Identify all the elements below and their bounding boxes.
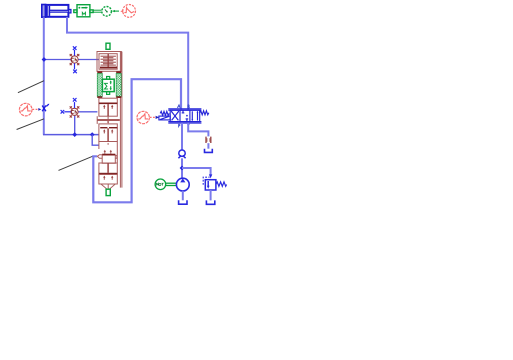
wire: valve T port to tank via orifice	[188, 123, 208, 136]
right spring	[200, 111, 209, 115]
spool section 1 (brown, metering stage)	[99, 98, 117, 116]
signal link arrow gauge to scope	[112, 10, 119, 12]
junction dot J2 (Ch2 drop on node row)	[72, 132, 77, 137]
Ch1 stubs and unconnected X ports	[73, 46, 77, 73]
wire: valve P port down to check valve	[181, 123, 183, 150]
cylinder C1 (double-acting hydraulic cylinder)	[42, 5, 71, 18]
wire: branch down into manifold pilot port	[92, 135, 99, 146]
relief valve RV1	[203, 177, 226, 190]
valve body cells	[170, 110, 200, 121]
left cell crossed arrows	[172, 112, 179, 121]
junction dot J1	[42, 57, 47, 62]
wire: check valve to pump	[181, 158, 183, 178]
interstage channel	[97, 116, 120, 124]
right cell straight arrows	[191, 111, 193, 120]
tank T1	[179, 200, 187, 204]
wire: Ch1 to manifold	[78, 59, 99, 61]
middle cell blocked ports	[182, 110, 184, 113]
junction dot J3	[90, 132, 95, 137]
wire: node row horizontal to manifold left port	[43, 134, 99, 136]
junction dot J4	[180, 166, 185, 171]
leader line L3	[59, 156, 94, 171]
signal generator SG1 (red circle with waveform)	[19, 103, 37, 116]
servo manifold top port (green)	[106, 43, 110, 49]
channel tap Ch1	[70, 54, 80, 65]
proportional 4/3 valve V1	[159, 109, 209, 123]
wire: cylinder rod-end line to valve port B	[67, 17, 188, 110]
Ch2 stubs and unconnected X ports	[61, 98, 77, 114]
gauge G1 (green dashed measuring instrument)	[102, 7, 112, 17]
spool section 5 (brown, outlet to port)	[99, 174, 117, 189]
signal generator SG2 (red circle with waveform, valve command)	[137, 111, 156, 123]
check valve CV1	[178, 150, 185, 158]
node X1 (tap junction on cap-end line with link arrow)	[42, 104, 49, 112]
spool section 2 (brown, pilot stage)	[99, 124, 117, 142]
spool section 3 (brown, feedback chamber)	[99, 142, 117, 163]
wire: supply branch to relief valve	[182, 168, 211, 176]
tank T3	[205, 149, 213, 153]
wire: cylinder cap-end line down the left bus	[43, 17, 45, 134]
pump circle	[176, 178, 189, 191]
wire: node row Ch1 to bus	[44, 59, 71, 61]
manifold outer return channels (right side, brown)	[120, 52, 122, 188]
channel tap Ch2	[70, 106, 80, 117]
spool section 4 (brown)	[99, 163, 117, 174]
heavy line: manifold outlet around to valve port A	[93, 79, 181, 202]
hatched feedback columns (green)	[97, 71, 102, 73]
summing block (green spool controller)	[102, 77, 114, 95]
valve rails (double lines)	[168, 108, 201, 110]
left proportional solenoid	[159, 116, 170, 120]
valve port labels	[177, 105, 190, 128]
mechanical link (double green line) sensor to gauge	[93, 10, 101, 12]
left spring	[160, 111, 169, 115]
wire: Ch2 to manifold	[78, 111, 97, 113]
oscilloscope SC1 (red dashed circle with response curve)	[120, 4, 135, 17]
wire: pump to tank	[182, 191, 184, 200]
servo manifold bottom port (green)	[106, 189, 110, 195]
orifice OR1 (brown)	[206, 137, 211, 143]
leader line L1	[18, 81, 44, 93]
leader line L2	[17, 119, 44, 130]
pump P1 with drive motor MOT	[155, 179, 176, 190]
wire: relief valve to tank	[210, 190, 212, 200]
tank T2	[206, 200, 214, 204]
wire: orifice to tank	[207, 143, 209, 149]
position sensor U1 (linear transducer, green box with M)	[74, 5, 93, 17]
wire: Ch2 down to node row	[74, 116, 76, 135]
servo pilot stage (torque motor, brown)	[97, 52, 121, 72]
